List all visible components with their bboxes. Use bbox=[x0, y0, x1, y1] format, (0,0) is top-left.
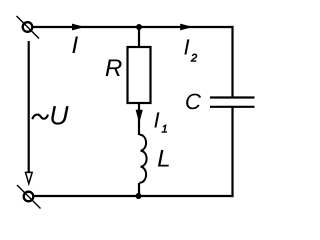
label L bbox=[158, 150, 169, 167]
current arrow I bbox=[72, 24, 85, 31]
wire top bbox=[33, 26, 233, 28]
wire middle between R and L bbox=[138, 103, 140, 135]
node junction top bbox=[136, 24, 142, 30]
wire left bbox=[28, 41, 30, 172]
inductor L bbox=[139, 135, 146, 183]
voltage arrow U (hollow) bbox=[26, 172, 33, 183]
wire bottom bbox=[34, 195, 234, 197]
wire middle upper bbox=[138, 27, 140, 48]
resistor R bbox=[128, 47, 151, 103]
label R bbox=[106, 60, 122, 77]
terminal bottom-left bbox=[17, 185, 41, 209]
wire right lower bbox=[231, 107, 233, 197]
current arrow I2 bbox=[180, 24, 193, 31]
current arrow I1 bbox=[136, 110, 143, 123]
wire right upper bbox=[231, 26, 233, 98]
label I1 bbox=[154, 112, 166, 132]
node junction bottom bbox=[136, 193, 142, 199]
label ~U bbox=[32, 106, 68, 125]
label I2 bbox=[184, 39, 197, 61]
capacitor C1 bbox=[210, 98, 255, 107]
wire middle lower bbox=[138, 183, 140, 196]
label C bbox=[186, 94, 201, 110]
label I bbox=[72, 37, 78, 54]
terminal top-left bbox=[17, 16, 40, 39]
